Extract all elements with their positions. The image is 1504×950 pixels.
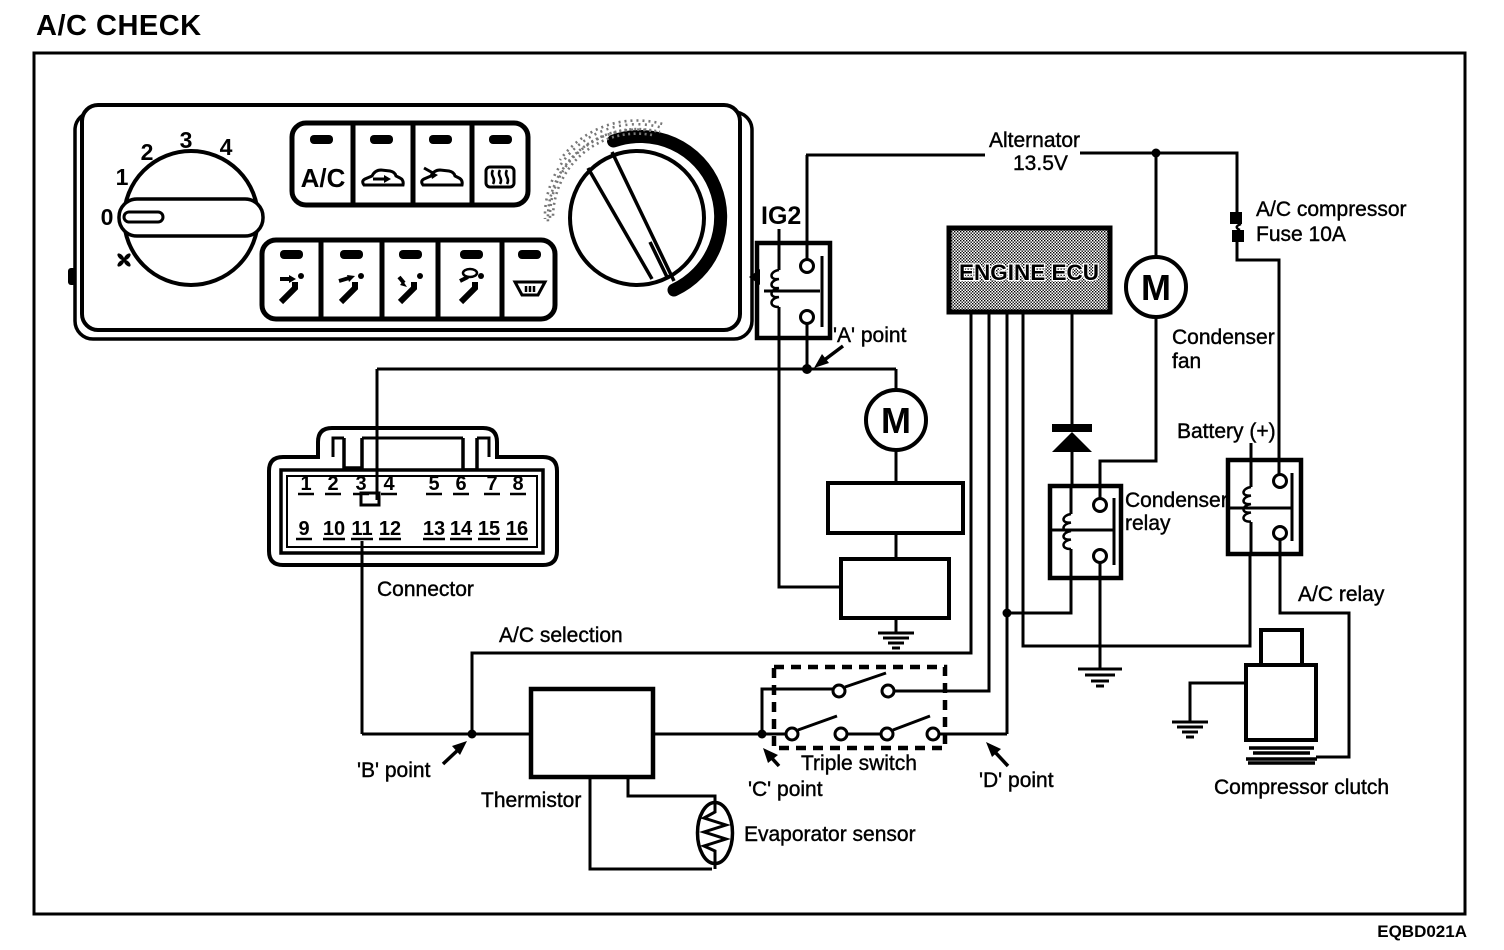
thermistor box: [531, 689, 653, 777]
button LED windows: [310, 135, 333, 144]
ENGINE ECU: [949, 228, 1110, 312]
node B point: [468, 730, 477, 739]
A/C compressor fuse 10A: [1230, 212, 1242, 224]
svg-text:'D' point: 'D' point: [979, 769, 1054, 792]
blower speed knob: [124, 151, 258, 285]
connector key slot left: [344, 438, 362, 468]
condenser fan motor M: [1126, 257, 1186, 317]
wire diode to condenser relay: [1071, 452, 1074, 487]
bi-level mode icon: [339, 273, 364, 302]
svg-text:ENGINE ECU: ENGINE ECU: [959, 260, 1099, 285]
thermistor to evaporator sensor wires: [590, 777, 712, 869]
upper button group: [292, 123, 528, 205]
pin 8: [512, 473, 523, 495]
svg-text:relay: relay: [1125, 512, 1171, 535]
wire alternator right segment: [1080, 153, 1237, 212]
wire D point: [939, 733, 1007, 736]
wire ECU pin2 to triple switch top: [893, 312, 989, 691]
temperature knob: [570, 151, 704, 285]
recirculation button icon: [363, 170, 403, 185]
svg-text:10: 10: [323, 518, 345, 540]
svg-text:fan: fan: [1172, 350, 1201, 373]
svg-text:13: 13: [423, 518, 445, 540]
wire clutch to ground: [1190, 683, 1246, 722]
compressor clutch plates: [1246, 748, 1317, 763]
svg-text:A/C selection: A/C selection: [499, 624, 623, 647]
wire ECU pin3 to D point: [1006, 312, 1009, 734]
connector inner shell line: [333, 438, 489, 457]
node condenser fan tap: [1152, 149, 1161, 158]
temperature knob pointer: [612, 152, 674, 281]
wire resistor to relay box: [895, 533, 898, 559]
wire IG2 coil to blower resistor: [779, 338, 841, 587]
svg-text:15: 15: [478, 518, 500, 540]
svg-text:7: 7: [486, 473, 497, 495]
pin 7: [486, 473, 497, 495]
svg-text:IG2: IG2: [761, 202, 801, 230]
condenser relay: [1050, 486, 1121, 578]
svg-text:A/C CHECK: A/C CHECK: [36, 10, 202, 42]
wire between switches: [847, 733, 881, 736]
wire condenser relay to ground: [1099, 562, 1102, 669]
pin 1: [300, 473, 311, 495]
svg-text:4: 4: [383, 473, 395, 495]
wire alternator left segment: [806, 154, 985, 157]
switch 1: [833, 685, 845, 697]
svg-text:9: 9: [298, 518, 309, 540]
pin 12: [379, 518, 401, 540]
wire relay box to ground: [895, 618, 898, 633]
svg-text:Connector: Connector: [377, 578, 474, 601]
pin 4: [383, 473, 395, 495]
svg-text:3: 3: [180, 127, 193, 153]
svg-text:EQBD021A: EQBD021A: [1377, 922, 1467, 941]
pin 15: [478, 518, 500, 540]
svg-text:0: 0: [101, 204, 114, 230]
evaporator sensor: [698, 803, 733, 864]
foot-defrost mode icon: [460, 269, 484, 302]
wire A/C relay to compressor clutch: [1280, 539, 1349, 757]
svg-text:14: 14: [450, 518, 473, 540]
wire A point horizontal: [377, 368, 896, 371]
ground blower: [878, 633, 914, 648]
svg-text:2: 2: [327, 473, 338, 495]
pin 9: [298, 518, 309, 540]
fresh air button icon: [422, 168, 462, 185]
svg-text:3: 3: [355, 473, 366, 495]
connector housing: [269, 428, 557, 565]
svg-text:5: 5: [428, 473, 439, 495]
temperature arc stipple: [545, 120, 666, 223]
svg-text:Battery (+): Battery (+): [1177, 420, 1276, 443]
foot mode icon: [399, 273, 423, 302]
connector pin socket 3: [361, 493, 379, 505]
A/C control panel body: [82, 105, 740, 330]
wire main line B to thermistor: [362, 733, 531, 736]
svg-text:A/C compressor: A/C compressor: [1256, 198, 1407, 221]
svg-text:Evaporator sensor: Evaporator sensor: [744, 823, 916, 846]
blower relay box: [841, 559, 949, 618]
svg-text:11: 11: [351, 518, 372, 540]
fan symbol: [116, 252, 131, 267]
D point arrow: [994, 751, 1008, 766]
blower motor M: [866, 390, 926, 450]
pin 2: [327, 473, 338, 495]
svg-text:8: 8: [512, 473, 523, 495]
svg-text:A/C relay: A/C relay: [1298, 583, 1385, 606]
svg-text:6: 6: [455, 473, 466, 495]
A/C control panel shadow outline: [75, 112, 752, 339]
blower motor feed wire: [895, 369, 898, 391]
A point arrow: [823, 346, 843, 361]
wire condenser fan to relay: [1100, 317, 1156, 499]
svg-text:16: 16: [506, 518, 528, 540]
lower button group: [262, 240, 555, 319]
svg-text:1: 1: [300, 473, 311, 495]
connector inner frame: [281, 470, 543, 553]
svg-text:Triple switch: Triple switch: [801, 752, 917, 775]
compressor clutch body: [1246, 665, 1316, 740]
panel to IG2 connection arrow: [749, 269, 760, 285]
A/C relay: [1228, 460, 1301, 554]
wire fuse to A/C relay: [1237, 242, 1279, 475]
diode: [1052, 424, 1092, 432]
mode LED windows: [280, 250, 303, 259]
wire tap to condenser relay coil: [1007, 578, 1071, 613]
svg-text:'C' point: 'C' point: [748, 778, 823, 801]
wire ECU pin1 A/C selection: [472, 312, 971, 734]
triple switch dashed box: [774, 667, 945, 748]
node A point junction: [802, 364, 812, 374]
compressor clutch coil top: [1261, 630, 1302, 665]
pin 13: [423, 518, 445, 540]
windshield defrost mode icon: [515, 282, 545, 295]
wire ECU pin5 to diode: [1071, 312, 1074, 424]
svg-text:'A' point: 'A' point: [833, 324, 907, 347]
svg-text:M: M: [1141, 267, 1171, 308]
switch 3: [881, 728, 893, 740]
blower knob handle bar: [119, 199, 263, 236]
blower knob indicator slot: [124, 212, 163, 222]
svg-text:A/C: A/C: [301, 163, 346, 193]
triple switch top pole wire: [762, 689, 833, 734]
wire ECU pin4 to A/C relay coil: [1023, 312, 1250, 646]
ground condenser relay: [1078, 669, 1122, 686]
pin 3: [355, 473, 366, 495]
svg-text:13.5V: 13.5V: [1013, 152, 1068, 175]
node C point: [758, 730, 767, 739]
pin 16: [506, 518, 528, 540]
svg-text:Compressor clutch: Compressor clutch: [1214, 776, 1389, 799]
svg-text:4: 4: [220, 134, 233, 160]
face vent mode icon: [280, 273, 304, 302]
wire blower motor to resistor: [895, 450, 898, 483]
svg-text:Thermistor: Thermistor: [481, 789, 581, 812]
svg-text:Fuse 10A: Fuse 10A: [1256, 223, 1346, 246]
pin 10: [323, 518, 345, 540]
switch 2: [786, 728, 798, 740]
wire thermistor to C point: [653, 733, 787, 736]
svg-text:Alternator: Alternator: [989, 129, 1080, 152]
svg-text:'B' point: 'B' point: [357, 759, 431, 782]
wire condenser fan to alternator line: [1155, 153, 1158, 257]
temperature arc black: [614, 136, 721, 290]
connector key slot right: [463, 438, 477, 470]
node condenser relay coil tap: [1003, 609, 1012, 618]
B point arrow: [443, 749, 459, 764]
IG2 ignition switch: [757, 229, 830, 338]
svg-text:2: 2: [141, 139, 154, 165]
svg-text:Condenser: Condenser: [1125, 489, 1228, 512]
panel mounting tab: [68, 268, 76, 285]
wire connector pin3 riser: [376, 369, 379, 500]
wire IG2 bottom pin to A point: [806, 323, 809, 369]
battery stub wire: [1250, 443, 1253, 460]
svg-text:Condenser: Condenser: [1172, 326, 1275, 349]
pin 14: [450, 518, 473, 540]
svg-text:12: 12: [379, 518, 401, 540]
wire IG2 top pin to alternator line: [806, 155, 809, 260]
pin 5: [428, 473, 439, 495]
svg-text:M: M: [881, 400, 911, 441]
pin 11: [351, 518, 372, 540]
ground compressor clutch: [1172, 722, 1208, 737]
wire pin 11 to B point: [361, 541, 364, 734]
C point arrow: [769, 755, 779, 766]
svg-text:1: 1: [116, 164, 129, 190]
blower resistor box: [828, 483, 963, 533]
pin 6: [455, 473, 466, 495]
rear defroster button icon: [486, 167, 514, 187]
